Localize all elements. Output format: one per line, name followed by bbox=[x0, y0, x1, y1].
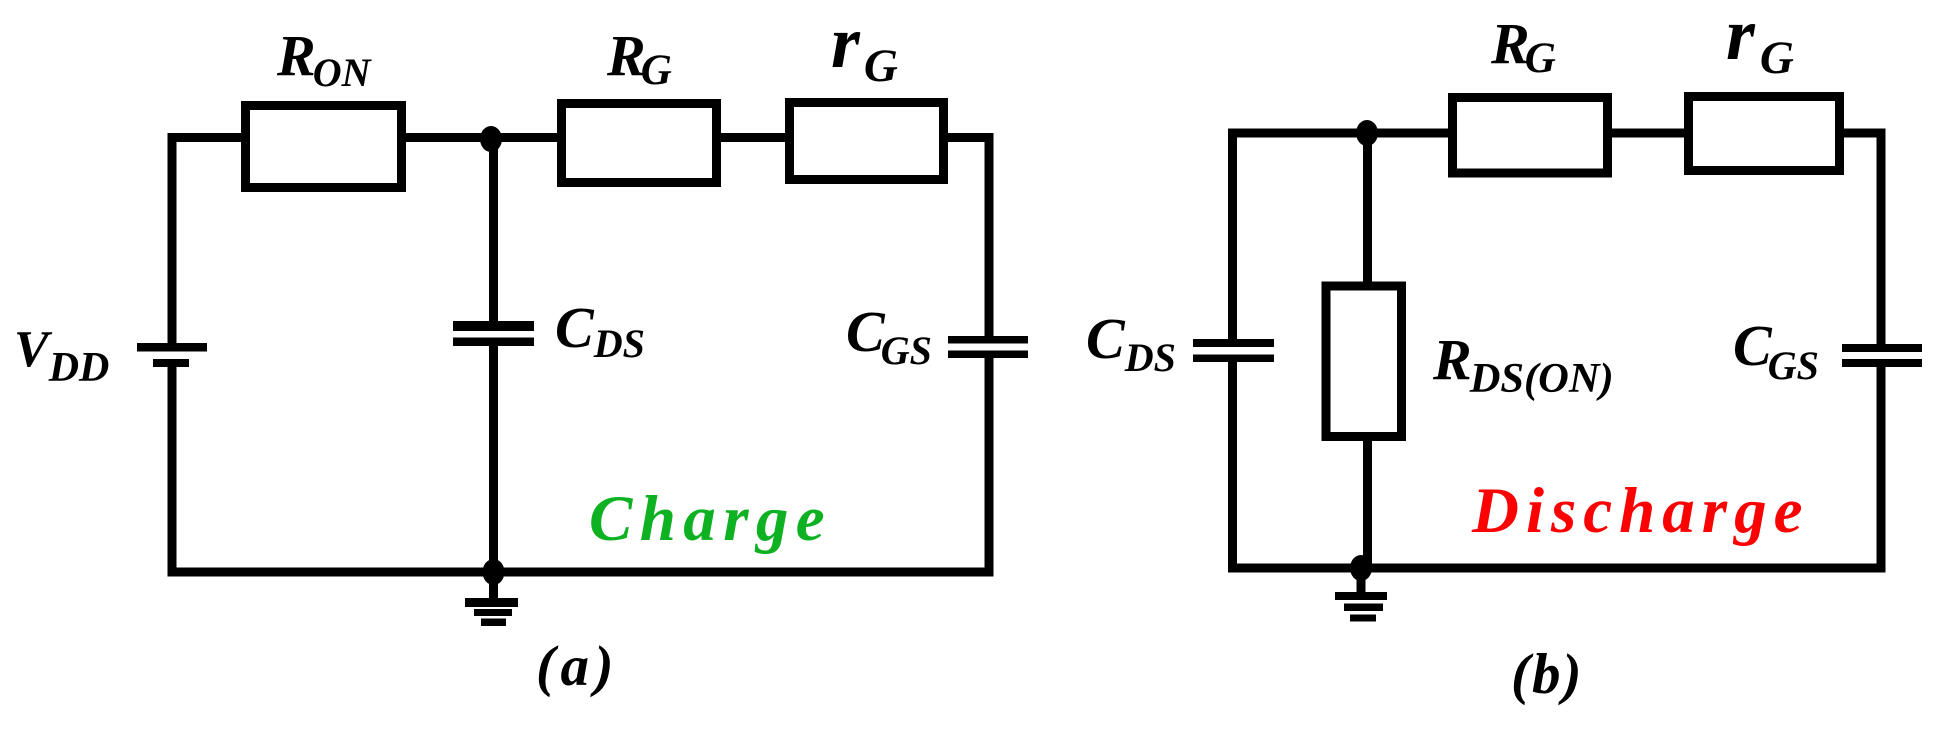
battery V_DD short plate bbox=[153, 359, 189, 367]
wire: C_DS branch upper (a) bbox=[489, 138, 498, 322]
wire: ground stem (b) bbox=[1357, 568, 1366, 592]
svg-text:(a): (a) bbox=[536, 635, 619, 698]
wire: top horizontal (a) bbox=[168, 133, 990, 142]
wire: top horizontal (b) bbox=[1228, 129, 1881, 138]
wire: right vertical upper (b) bbox=[1877, 129, 1886, 345]
node: junction dot bottom (a) bbox=[483, 559, 505, 585]
wire: C_DS branch lower (a) bbox=[489, 346, 498, 572]
capacitor C_GS plates (a) bbox=[948, 336, 1028, 344]
resistor r_G box (a) bbox=[790, 103, 944, 180]
resistor R_G box (b) bbox=[1453, 98, 1608, 174]
wire: ground stem (a) bbox=[489, 572, 498, 598]
svg-text:CGS: CGS bbox=[1733, 313, 1819, 388]
svg-text:RG: RG bbox=[606, 23, 672, 94]
ground (b) bbox=[1335, 592, 1387, 622]
svg-text:RDS(ON): RDS(ON) bbox=[1432, 327, 1614, 402]
resistor R_DS(ON) box (b) bbox=[1326, 286, 1402, 437]
wire: right vertical (a) bbox=[985, 133, 994, 336]
svg-text:RG: RG bbox=[1490, 11, 1556, 82]
wire: left vertical bottom segment (a) bbox=[168, 367, 177, 577]
wire: R_DS branch lower (b) bbox=[1363, 437, 1372, 568]
svg-text:CDS: CDS bbox=[1086, 306, 1176, 380]
wire: left vertical top segment (b) bbox=[1228, 133, 1237, 339]
battery V_DD long plate bbox=[137, 343, 207, 352]
resistor R_G box (a) bbox=[562, 104, 717, 183]
svg-text:Charge: Charge bbox=[589, 483, 832, 555]
ground (a) bbox=[465, 598, 518, 626]
wire: right vertical lower segment (a) bbox=[985, 358, 994, 572]
svg-text:CGS: CGS bbox=[846, 299, 932, 373]
capacitor C_DS plates (b) bbox=[1193, 339, 1274, 347]
node: junction dot bottom (b) bbox=[1350, 555, 1372, 581]
svg-text:CDS: CDS bbox=[555, 295, 645, 366]
capacitor C_GS plates (b) bbox=[1842, 344, 1922, 352]
capacitor C_DS plates (a) bbox=[453, 321, 534, 331]
svg-text:rG: rG bbox=[1726, 0, 1794, 84]
wire: left vertical bottom segment (b) bbox=[1228, 362, 1237, 573]
wire: bottom horizontal (a) bbox=[168, 568, 994, 577]
wire: left vertical top segment (a) bbox=[168, 138, 177, 344]
svg-text:(b): (b) bbox=[1511, 643, 1583, 706]
svg-text:Discharge: Discharge bbox=[1471, 475, 1809, 547]
resistor R_ON box bbox=[246, 106, 402, 188]
wire: R_DS branch upper (b) bbox=[1363, 133, 1372, 286]
node: junction dot top (a) bbox=[480, 126, 502, 152]
resistor r_G box (b) bbox=[1689, 97, 1840, 171]
svg-text:rG: rG bbox=[831, 2, 898, 92]
wire: right vertical lower (b) bbox=[1877, 367, 1886, 568]
wire: bottom horizontal (b) bbox=[1228, 564, 1886, 573]
node: junction dot top (b) bbox=[1356, 120, 1378, 146]
svg-text:VDD: VDD bbox=[14, 321, 109, 391]
svg-text:RON: RON bbox=[276, 23, 373, 95]
